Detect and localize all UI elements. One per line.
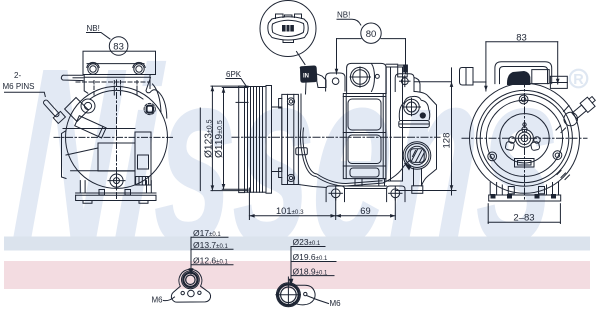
watermark blue stripe: [4, 237, 590, 251]
bolt top-right (left view): [144, 103, 155, 114]
holes L: [181, 290, 201, 297]
note NB! (left): [87, 24, 111, 39]
svg-text:IN: IN: [303, 74, 309, 80]
lower tube: [412, 168, 423, 193]
flange R outline: [292, 285, 316, 305]
dim 128: [395, 68, 456, 195]
feet (left view): [76, 181, 156, 204]
right blocks: [532, 70, 568, 89]
front housing: [279, 94, 299, 184]
bracket bolt right: [133, 62, 145, 74]
body left flat: [62, 131, 67, 179]
svg-text:80: 80: [366, 29, 377, 40]
bolt bottom w/ cross: [108, 173, 125, 189]
right column: [386, 65, 407, 181]
dim 80: [335, 39, 408, 74]
svg-text:69: 69: [360, 206, 370, 216]
connector IN on body: [300, 66, 326, 94]
top bracket (left view): [83, 51, 156, 77]
svg-text:NB!: NB!: [87, 24, 100, 33]
centerline horizontal (left view): [54, 136, 174, 138]
M6 pin assembly: [41, 98, 106, 138]
feet (middle view): [298, 179, 405, 202]
label d23: [291, 237, 325, 247]
svg-text:128: 128: [441, 133, 452, 149]
svg-text:NB!: NB!: [337, 11, 350, 20]
hub circles: [516, 123, 534, 147]
note 6PK: [226, 70, 247, 87]
body circle (left view): [66, 86, 168, 188]
note M6 R: [307, 296, 342, 309]
side plate: [61, 75, 83, 80]
label d13.7: [191, 240, 233, 250]
svg-text:R: R: [573, 72, 584, 88]
watermark registered mark: [570, 70, 588, 88]
body circles (right view): [470, 83, 580, 193]
hidden bolt holes (dashed): [94, 81, 137, 97]
port circles R: [276, 283, 300, 307]
feet (right view): [489, 183, 561, 202]
svg-text:2-: 2-: [14, 71, 21, 80]
body top edge: [386, 63, 398, 65]
label d18.9: [291, 266, 334, 276]
hub windows: [505, 137, 540, 151]
lower-right port: [403, 142, 431, 170]
dim 101: [249, 188, 335, 220]
detail circle (connector zoom): [260, 1, 316, 65]
main block: [343, 94, 386, 179]
right fitting w/ cap: [399, 96, 430, 127]
watermark pink stripe: [4, 261, 590, 289]
clutch hub blob: [507, 72, 530, 85]
label d12.6: [191, 256, 233, 266]
rear profile: [414, 92, 437, 186]
port crosshair R: [276, 277, 301, 307]
hidden top dashed line: [76, 81, 150, 83]
dim 2-83: [488, 204, 560, 224]
svg-text:M6: M6: [330, 299, 342, 308]
svg-text:Nissens: Nissens: [6, 17, 567, 296]
note 2-M6 PINS: [3, 71, 46, 97]
label plate: [515, 159, 535, 168]
harness tube curve: [296, 94, 410, 186]
label d17: [191, 228, 228, 238]
svg-text:6PK: 6PK: [226, 70, 242, 79]
hole R: [304, 292, 307, 295]
ribbed block: [136, 177, 149, 186]
bracket legs: [84, 75, 150, 94]
balloon 83 (left): [109, 37, 128, 56]
dim 69: [336, 198, 396, 220]
centerline (middle view): [232, 136, 440, 138]
dim d123 pulley: [200, 86, 248, 191]
leader line detail L: [189, 237, 193, 274]
right ear arc: [146, 78, 167, 119]
centerlines (right view): [462, 80, 587, 200]
dim 83 (top right): [484, 32, 559, 91]
centerline vertical (left view): [116, 80, 118, 200]
note M6 L: [152, 296, 175, 305]
port circles L: [182, 271, 200, 289]
svg-text:M6: M6: [152, 296, 164, 305]
bracket bolt left: [87, 62, 99, 74]
body top inner arc: [90, 90, 143, 99]
fitting (right view): [556, 95, 598, 180]
left small bracket: [460, 68, 487, 86]
top boss w/ crossed circle: [347, 63, 387, 93]
label d19.6: [291, 252, 336, 262]
flange L outline: [171, 269, 210, 302]
top bracket (right view): [495, 62, 552, 84]
clips on pulley circle: [488, 95, 562, 161]
svg-text:2–83: 2–83: [513, 212, 534, 223]
svg-text:M6 PINS: M6 PINS: [3, 82, 35, 91]
svg-text:83: 83: [516, 32, 527, 43]
pulley: [239, 86, 272, 194]
dim d119 pulley: [214, 88, 248, 190]
note NB! (middle) + balloon 80: [337, 11, 381, 44]
top-right mount: [395, 74, 420, 92]
leader line detail R: [289, 247, 292, 285]
pulley step line: [236, 101, 248, 103]
top-left mount: [326, 73, 345, 91]
interior block: [63, 129, 151, 186]
pulley nose: [272, 107, 282, 172]
